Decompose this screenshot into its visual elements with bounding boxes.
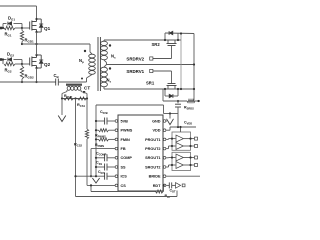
svg-text:CCOMP: CCOMP bbox=[96, 152, 107, 157]
svg-text:CSS: CSS bbox=[96, 161, 102, 166]
svg-text:ICS: ICS bbox=[121, 175, 128, 179]
svg-text:CT: CT bbox=[84, 86, 90, 91]
svg-text:CVDD: CVDD bbox=[184, 121, 192, 126]
svg-text:5VB: 5VB bbox=[121, 119, 129, 123]
svg-text:C5VB: C5VB bbox=[100, 110, 108, 115]
svg-text:CB: CB bbox=[54, 73, 60, 79]
svg-text:SR1: SR1 bbox=[146, 81, 155, 86]
svg-text:RG2: RG2 bbox=[5, 68, 12, 74]
svg-text:CICS: CICS bbox=[98, 170, 105, 175]
svg-text:FMIN: FMIN bbox=[121, 138, 131, 142]
svg-text:Np: Np bbox=[79, 58, 84, 64]
svg-text:RDT: RDT bbox=[153, 184, 161, 188]
svg-text:VDD: VDD bbox=[152, 129, 160, 133]
svg-text:SROUT2: SROUT2 bbox=[145, 165, 160, 169]
svg-text:RG1: RG1 bbox=[5, 32, 12, 38]
svg-text:SR2: SR2 bbox=[152, 42, 161, 47]
svg-text:DG2: DG2 bbox=[7, 52, 14, 58]
svg-text:SS: SS bbox=[121, 165, 127, 169]
svg-text:COMP: COMP bbox=[121, 156, 133, 160]
svg-text:PWMS: PWMS bbox=[121, 129, 133, 133]
svg-text:RCS1: RCS1 bbox=[77, 103, 85, 108]
svg-text:FB: FB bbox=[121, 147, 126, 151]
svg-text:Ns: Ns bbox=[107, 78, 112, 84]
svg-text:CDT: CDT bbox=[170, 188, 176, 193]
svg-text:RPWMS: RPWMS bbox=[95, 134, 106, 139]
svg-text:SRDRV2: SRDRV2 bbox=[126, 56, 144, 61]
svg-text:RGD1: RGD1 bbox=[25, 38, 35, 44]
svg-text:GND: GND bbox=[152, 119, 161, 123]
svg-text:CS: CS bbox=[121, 184, 127, 188]
svg-text:SROUT1: SROUT1 bbox=[145, 156, 160, 160]
svg-text:BRIDE: BRIDE bbox=[149, 175, 161, 179]
svg-text:RSRDS: RSRDS bbox=[184, 106, 194, 111]
svg-text:RGD2: RGD2 bbox=[25, 74, 35, 80]
svg-text:SRDRV1: SRDRV1 bbox=[126, 69, 144, 74]
svg-text:Q2: Q2 bbox=[44, 62, 51, 67]
svg-text:Ns: Ns bbox=[111, 54, 116, 60]
svg-text:Q1: Q1 bbox=[44, 26, 51, 31]
svg-text:PROUT1: PROUT1 bbox=[145, 138, 160, 142]
svg-text:PROUT2: PROUT2 bbox=[145, 147, 160, 151]
svg-text:DG1: DG1 bbox=[8, 16, 15, 22]
